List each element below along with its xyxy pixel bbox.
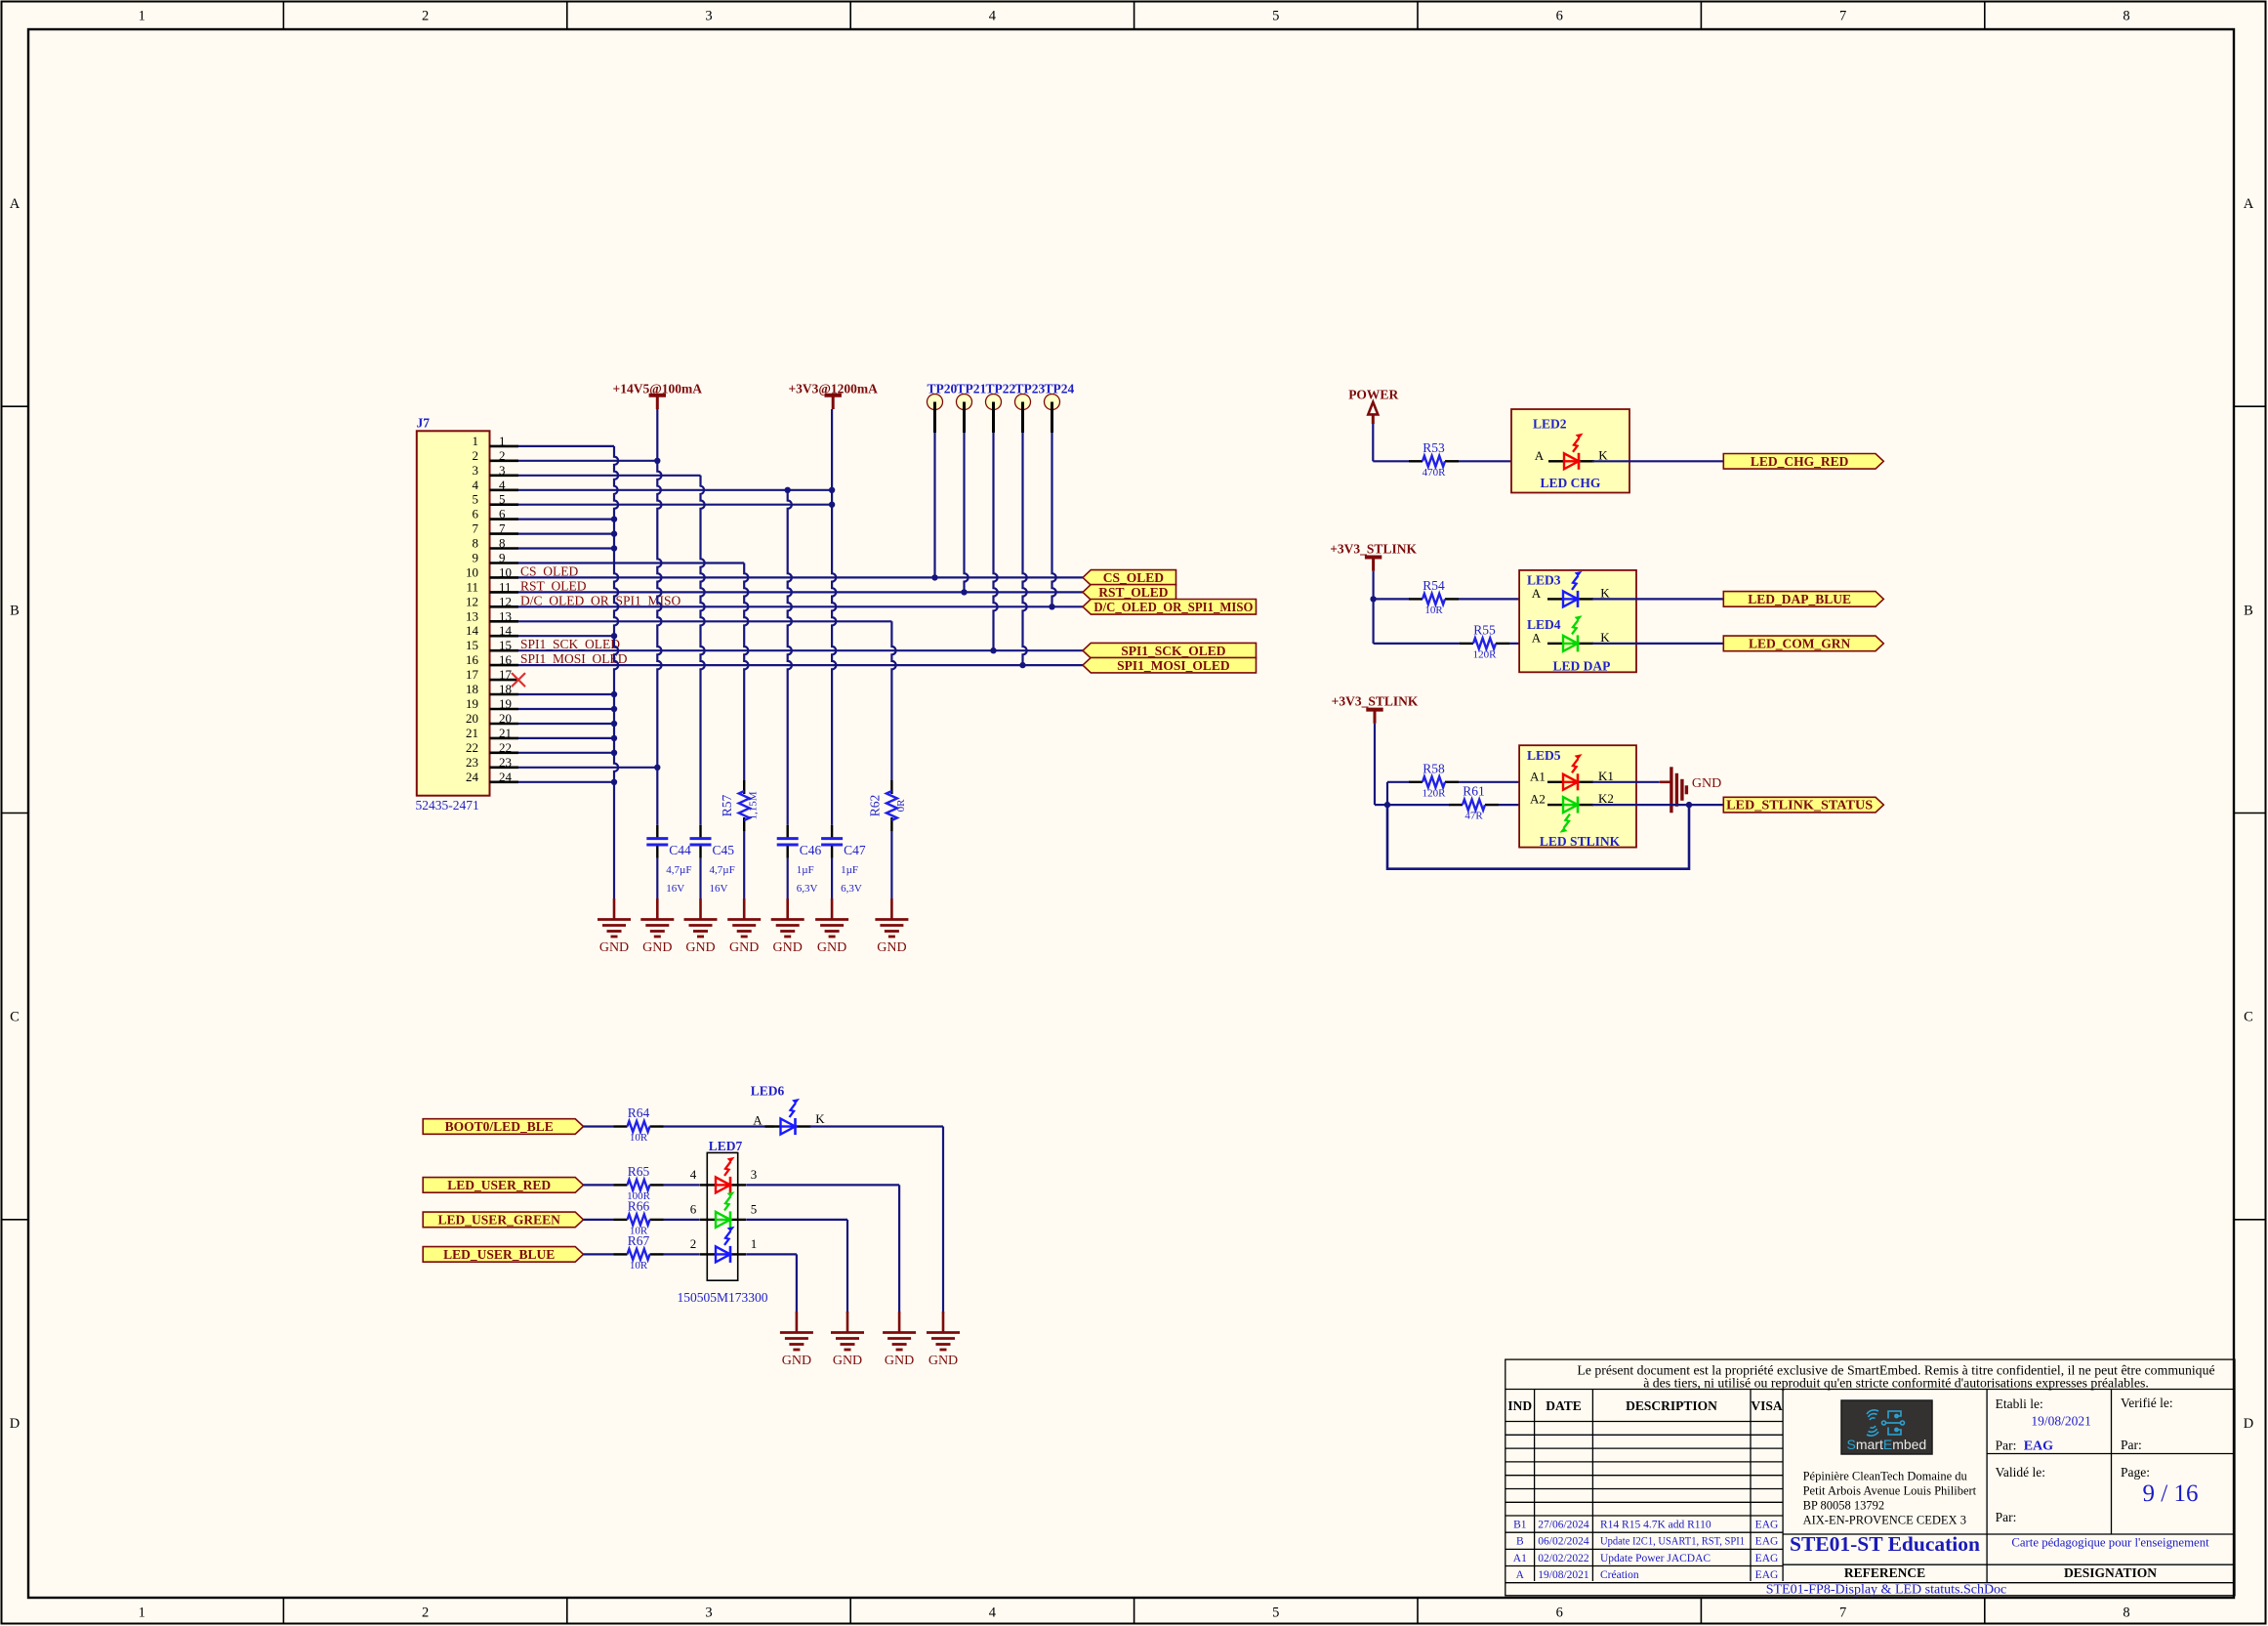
- svg-text:3: 3: [705, 1605, 712, 1621]
- wire pin7 to GND bus: [518, 532, 614, 534]
- wire BLE drop: [942, 1127, 944, 1314]
- testpoint TP21: [957, 382, 987, 434]
- wire R64 to LED6: [664, 1125, 775, 1127]
- port SPI1_SCK_OLED: [1083, 643, 1257, 658]
- svg-text:16: 16: [499, 652, 513, 667]
- svg-text:6: 6: [473, 507, 479, 521]
- port LED_STLINK_STATUS: [1723, 797, 1883, 813]
- svg-text:DATE: DATE: [1546, 1398, 1582, 1413]
- svg-text:5: 5: [1272, 9, 1279, 24]
- power port POWER: [1348, 388, 1398, 425]
- port LED_COM_GRN: [1723, 636, 1883, 651]
- svg-text:Petit Arbois Avenue Louis Phil: Petit Arbois Avenue Louis Philibert: [1803, 1484, 1977, 1498]
- port BOOT0/LED_BLE: [423, 1119, 583, 1135]
- wire R65 to LED7 pin4: [664, 1184, 700, 1186]
- svg-text:5: 5: [499, 492, 506, 507]
- svg-text:3: 3: [705, 9, 712, 24]
- svg-text:22: 22: [499, 740, 512, 755]
- svg-text:16: 16: [466, 652, 479, 667]
- wire R58 to LED5 A1: [1459, 781, 1546, 783]
- svg-text:1,15M: 1,15M: [748, 791, 760, 819]
- svg-text:D: D: [10, 1416, 20, 1432]
- svg-text:LED STLINK: LED STLINK: [1540, 834, 1621, 849]
- svg-text:C: C: [2244, 1010, 2253, 1025]
- svg-text:EAG: EAG: [1755, 1519, 1779, 1530]
- svg-text:TP21: TP21: [957, 382, 987, 396]
- wire TP24 to D/C_OLED_OR_SPI1_MISO: [1052, 433, 1056, 606]
- ground GND9 at x=868: [831, 1312, 864, 1368]
- wire LED2 K to port: [1592, 460, 1723, 462]
- pin 10 of J7: [466, 564, 518, 579]
- svg-text:7: 7: [499, 521, 506, 536]
- wire R62 column lower: [890, 830, 892, 898]
- pin 23 of J7: [466, 755, 518, 770]
- svg-text:A: A: [1532, 586, 1542, 601]
- svg-text:8: 8: [473, 536, 479, 551]
- svg-text:GND: GND: [782, 1354, 811, 1368]
- wire capacitor to ground: [699, 858, 701, 898]
- svg-text:4: 4: [989, 1605, 997, 1621]
- wire LED3 K to port: [1592, 598, 1723, 600]
- svg-text:GND: GND: [685, 940, 715, 955]
- svg-text:C47: C47: [844, 843, 866, 857]
- junction C46 column +3V3: [785, 487, 791, 493]
- svg-text:CS_OLED: CS_OLED: [520, 563, 579, 578]
- svg-text:Page:: Page:: [2121, 1465, 2150, 1480]
- no-connect marker pin 17: [512, 673, 525, 687]
- svg-text:SPI1_MOSI_OLED: SPI1_MOSI_OLED: [520, 651, 628, 666]
- pin 7 of J7: [473, 521, 519, 536]
- wire pin8 to GND bus: [518, 547, 614, 549]
- svg-text:15: 15: [499, 638, 512, 652]
- svg-text:J7: J7: [417, 416, 431, 431]
- svg-text:18: 18: [499, 682, 512, 696]
- pin 16 of J7: [466, 652, 518, 667]
- svg-text:STE01-FP8-Display & LED statut: STE01-FP8-Display & LED statuts.SchDoc: [1766, 1583, 2007, 1598]
- capacitor C44: [646, 825, 691, 895]
- led LED5 (LED STLINK): [1519, 745, 1636, 849]
- junction GND bus pin22: [611, 750, 617, 756]
- svg-text:Update Power JACDAC: Update Power JACDAC: [1600, 1553, 1711, 1564]
- svg-text:POWER: POWER: [1348, 388, 1398, 402]
- port LED_USER_GREEN: [423, 1212, 583, 1228]
- pin 18 of J7: [466, 682, 518, 696]
- svg-text:24: 24: [499, 770, 513, 784]
- testpoint TP23: [1015, 382, 1046, 434]
- ground GND (rotated): [1660, 767, 1721, 813]
- svg-text:TP20: TP20: [928, 382, 958, 396]
- wire pin5 to +3V3 rail: [518, 504, 832, 506]
- svg-text:GND: GND: [1692, 776, 1721, 791]
- svg-text:Pépinière CleanTech Domaine du: Pépinière CleanTech Domaine du: [1803, 1470, 1968, 1483]
- ground GND3 at x=718: [684, 898, 718, 955]
- svg-text:SmartEmbed: SmartEmbed: [1847, 1437, 1927, 1452]
- pin 6 of J7: [473, 507, 519, 521]
- svg-text:C45: C45: [713, 843, 735, 857]
- svg-text:A: A: [2244, 196, 2254, 212]
- capacitor C45: [690, 825, 735, 895]
- svg-text:7: 7: [1839, 1605, 1846, 1621]
- wire A2 node to R61: [1387, 804, 1450, 806]
- title block: [1505, 1359, 2235, 1596]
- svg-text:GND: GND: [885, 1354, 914, 1368]
- pin 19 of J7: [466, 696, 518, 711]
- svg-text:22: 22: [466, 740, 478, 755]
- svg-text:LED_USER_RED: LED_USER_RED: [447, 1178, 551, 1192]
- svg-text:A1: A1: [1513, 1553, 1527, 1564]
- svg-text:20: 20: [466, 711, 478, 726]
- svg-text:AIX-EN-PROVENCE CEDEX 3: AIX-EN-PROVENCE CEDEX 3: [1803, 1514, 1966, 1527]
- svg-text:19: 19: [466, 696, 478, 711]
- svg-text:19: 19: [499, 696, 512, 711]
- svg-text:K2: K2: [1598, 791, 1614, 806]
- svg-text:LED_CHG_RED: LED_CHG_RED: [1751, 454, 1849, 469]
- svg-text:SPI1_SCK_OLED: SPI1_SCK_OLED: [1121, 644, 1226, 658]
- svg-text:120R: 120R: [1473, 648, 1498, 660]
- svg-text:C: C: [10, 1010, 20, 1025]
- wire LED6 K to ground: [810, 1125, 944, 1127]
- svg-text:RST_OLED: RST_OLED: [520, 578, 587, 593]
- junction TP20 CS_OLED: [931, 574, 937, 580]
- wire pin21 to GND bus: [518, 737, 614, 739]
- svg-text:13: 13: [466, 608, 478, 623]
- svg-text:8: 8: [2123, 9, 2129, 24]
- resistor R65: [614, 1164, 664, 1202]
- svg-text:19/08/2021: 19/08/2021: [1538, 1569, 1589, 1581]
- svg-text:12: 12: [466, 594, 478, 608]
- testpoint TP20: [928, 382, 958, 434]
- svg-text:Par:: Par:: [1996, 1438, 2017, 1453]
- svg-text:6,3V: 6,3V: [797, 883, 818, 895]
- svg-text:1: 1: [499, 434, 506, 448]
- svg-text:5: 5: [473, 492, 479, 507]
- wire pin20 to GND bus: [518, 723, 614, 725]
- wire R53 to LED2: [1459, 460, 1546, 462]
- svg-text:2: 2: [422, 1605, 429, 1621]
- svg-text:LED6: LED6: [751, 1084, 785, 1099]
- svg-text:5: 5: [751, 1202, 758, 1217]
- svg-text:12: 12: [499, 594, 512, 608]
- svg-text:GND: GND: [877, 940, 906, 955]
- svg-text:8: 8: [2123, 1605, 2129, 1621]
- wire LED4 K to port: [1592, 643, 1723, 645]
- svg-text:3: 3: [473, 463, 479, 478]
- wire POWER to R53: [1373, 460, 1410, 462]
- svg-text:7: 7: [1839, 9, 1846, 24]
- wire R57 column lower: [743, 830, 745, 898]
- svg-text:GND: GND: [599, 940, 629, 955]
- svg-text:Par:: Par:: [1996, 1510, 2017, 1524]
- svg-text:1µF: 1µF: [797, 864, 814, 876]
- svg-text:STE01-ST Education: STE01-ST Education: [1790, 1532, 1980, 1556]
- capacitor C46: [777, 825, 822, 895]
- svg-text:1: 1: [139, 1605, 145, 1621]
- svg-text:B: B: [2244, 603, 2253, 618]
- wire pin18 to GND bus: [518, 693, 614, 695]
- svg-text:R58: R58: [1423, 761, 1445, 775]
- svg-text:B: B: [1516, 1536, 1524, 1548]
- led LED2 (LED CHG): [1511, 409, 1629, 493]
- power port +3V3: [788, 382, 878, 410]
- svg-text:A: A: [1516, 1569, 1525, 1581]
- ground GND5 at x=807: [771, 898, 804, 955]
- wire pin6 to GND bus: [518, 518, 614, 520]
- junction A2 node: [1384, 802, 1390, 808]
- wire TP21 to RST_OLED: [965, 433, 969, 592]
- svg-text:14: 14: [499, 623, 513, 638]
- svg-text:EAG: EAG: [1755, 1569, 1779, 1581]
- port LED_CHG_RED: [1723, 454, 1883, 470]
- svg-text:A: A: [753, 1113, 763, 1128]
- resistor R55: [1460, 622, 1509, 660]
- wire pin22 to GND bus: [518, 752, 614, 754]
- junction TP24 D/C_OLED: [1049, 604, 1054, 609]
- junction TP22 SPI1_SCK_OLED: [990, 647, 996, 653]
- svg-text:7: 7: [473, 521, 479, 536]
- svg-text:Par:: Par:: [2121, 1438, 2142, 1452]
- svg-text:Update I2C1, USART1, RST, SPI1: Update I2C1, USART1, RST, SPI1: [1600, 1536, 1745, 1548]
- svg-text:8: 8: [499, 536, 506, 551]
- wire capacitor to ground: [656, 858, 658, 898]
- wire R55 to LED4: [1509, 643, 1546, 645]
- svg-text:15: 15: [466, 638, 478, 652]
- svg-text:52435-2471: 52435-2471: [416, 798, 479, 813]
- wire to R54: [1374, 598, 1410, 600]
- resistor R67: [614, 1233, 664, 1272]
- wire capacitor to ground: [787, 858, 789, 898]
- svg-text:R67: R67: [628, 1233, 650, 1248]
- svg-text:TP23: TP23: [1015, 382, 1046, 396]
- svg-text:C46: C46: [800, 843, 822, 857]
- svg-text:LED DAP: LED DAP: [1553, 659, 1611, 674]
- svg-text:CS_OLED: CS_OLED: [1103, 570, 1165, 585]
- wire pin13 to R62 column: [518, 620, 891, 622]
- svg-text:SPI1_MOSI_OLED: SPI1_MOSI_OLED: [1117, 658, 1230, 673]
- resistor R62: [867, 780, 907, 831]
- svg-text:4: 4: [690, 1167, 697, 1182]
- svg-text:1µF: 1µF: [841, 864, 858, 876]
- wire blue drop: [796, 1254, 798, 1313]
- svg-text:R66: R66: [628, 1198, 650, 1213]
- svg-text:à des tiers, ni utilisé ou rep: à des tiers, ni utilisé ou reproduit qu'…: [1643, 1376, 2149, 1391]
- resistor R54: [1409, 578, 1459, 616]
- svg-text:EAG: EAG: [1755, 1536, 1779, 1548]
- svg-text:LED2: LED2: [1533, 417, 1567, 432]
- pin 1 of J7: [473, 434, 519, 448]
- junction TP21 RST_OLED: [961, 589, 967, 595]
- svg-text:10: 10: [499, 564, 512, 579]
- junction GND bus pin20: [611, 721, 617, 727]
- wire green drop: [846, 1220, 848, 1313]
- svg-text:C44: C44: [669, 843, 691, 857]
- svg-text:RST_OLED: RST_OLED: [1098, 585, 1169, 600]
- wire LED7 pin3 to ground: [746, 1184, 899, 1186]
- connector J7: [417, 431, 490, 795]
- svg-text:21: 21: [466, 726, 478, 740]
- svg-text:SPI1_SCK_OLED: SPI1_SCK_OLED: [520, 637, 620, 651]
- svg-text:GND: GND: [928, 1354, 958, 1368]
- pin 2 of J7: [473, 448, 519, 463]
- port SPI1_MOSI_OLED: [1083, 657, 1257, 673]
- svg-text:R62: R62: [867, 795, 882, 817]
- ground GND2 at x=673: [640, 898, 674, 955]
- resistor R53: [1409, 440, 1459, 479]
- wire TP20 to CS_OLED: [933, 433, 935, 577]
- svg-text:4: 4: [473, 478, 479, 492]
- pin 17 of J7: [466, 667, 518, 682]
- svg-text:13: 13: [499, 608, 512, 623]
- svg-text:LED_COM_GRN: LED_COM_GRN: [1749, 637, 1851, 651]
- svg-text:21: 21: [499, 726, 512, 740]
- svg-text:R61: R61: [1463, 784, 1485, 799]
- svg-text:LED7: LED7: [709, 1139, 743, 1153]
- svg-text:B: B: [10, 603, 20, 618]
- resistor R58: [1409, 761, 1459, 799]
- wire GND bus vertical: [614, 446, 618, 898]
- power port +3V3_STLINK upper: [1330, 542, 1417, 571]
- svg-text:14: 14: [466, 623, 479, 638]
- svg-text:TP24: TP24: [1045, 382, 1075, 396]
- wire R62 column upper: [891, 621, 895, 781]
- ground GND4 at x=762: [727, 898, 761, 955]
- svg-text:EAG: EAG: [2024, 1439, 2053, 1454]
- junction GND bus pin6: [611, 516, 617, 521]
- wire LED_USER_GREEN to R66: [584, 1219, 614, 1221]
- wire net SPI1_MOSI_OLED: [518, 664, 1083, 666]
- svg-text:2: 2: [473, 448, 479, 463]
- svg-text:6: 6: [1556, 1605, 1563, 1621]
- wire capacitor to ground: [831, 858, 833, 898]
- svg-text:D: D: [2244, 1416, 2253, 1432]
- svg-text:4,7µF: 4,7µF: [710, 864, 735, 876]
- pin 13 of J7: [466, 608, 518, 623]
- svg-text:47R: 47R: [1464, 811, 1483, 822]
- svg-text:5: 5: [1272, 1605, 1279, 1621]
- svg-text:A2: A2: [1530, 792, 1546, 807]
- svg-text:K: K: [815, 1111, 825, 1126]
- svg-text:A: A: [10, 196, 21, 212]
- led LED7 (RGB 150505M173300): [677, 1139, 767, 1305]
- svg-text:120R: 120R: [1423, 787, 1447, 799]
- wire branch to R55 row: [1372, 599, 1374, 644]
- wire pin1 to GND bus: [518, 445, 614, 447]
- junction +14V5 pin2: [654, 458, 660, 464]
- wire +3V3 rail vertical: [832, 409, 836, 825]
- wire pin23 to +14V5 rail: [518, 767, 657, 769]
- junction GND bus pin8: [611, 545, 617, 551]
- svg-text:18: 18: [466, 682, 478, 696]
- junction K2 loop: [1686, 802, 1692, 808]
- pin 5 of J7: [473, 492, 519, 507]
- wire pin4 to +3V3 rail: [518, 489, 832, 491]
- svg-text:27/06/2024: 27/06/2024: [1538, 1519, 1589, 1530]
- pin 14 of J7: [466, 623, 518, 638]
- resistor R64: [614, 1105, 664, 1144]
- svg-text:GND: GND: [773, 940, 803, 955]
- svg-text:1: 1: [751, 1236, 758, 1251]
- svg-text:GND: GND: [833, 1354, 862, 1368]
- svg-text:24: 24: [466, 770, 479, 784]
- pin 15 of J7: [466, 638, 518, 652]
- wire net RST_OLED: [518, 591, 1083, 593]
- svg-text:+3V3_STLINK: +3V3_STLINK: [1330, 542, 1417, 557]
- pin 24 of J7: [466, 770, 518, 784]
- svg-text:DESIGNATION: DESIGNATION: [2064, 1565, 2157, 1580]
- wire R57 column upper: [744, 563, 748, 782]
- wire LED5 K1 to ground: [1592, 781, 1660, 783]
- wire R66 to LED7 pin6: [664, 1219, 700, 1221]
- wire BOOT0 to R64: [584, 1125, 614, 1127]
- capacitor C47: [821, 825, 866, 895]
- wire pin9 to R57 column: [518, 562, 744, 563]
- junction GND bus pin24: [611, 779, 617, 785]
- wire +3V3_STLINK drop: [1372, 571, 1374, 600]
- svg-text:LED CHG: LED CHG: [1541, 476, 1601, 490]
- led LED6: [751, 1084, 826, 1136]
- svg-text:23: 23: [466, 755, 478, 770]
- svg-text:Carte pédagogique pour l'ensei: Carte pédagogique pour l'enseignement: [2011, 1536, 2209, 1550]
- wire to R58: [1387, 781, 1410, 783]
- svg-text:9 / 16: 9 / 16: [2143, 1480, 2199, 1507]
- resistor R57: [720, 780, 760, 831]
- svg-text:BP 80058 13792: BP 80058 13792: [1803, 1499, 1885, 1513]
- wire to R55: [1374, 643, 1461, 645]
- svg-text:A: A: [1532, 631, 1542, 646]
- wire A2 node up to R58 row: [1386, 782, 1388, 805]
- port RST_OLED: [1083, 585, 1176, 601]
- svg-text:D/C_OLED_OR_SPI1_MISO: D/C_OLED_OR_SPI1_MISO: [1093, 600, 1253, 614]
- svg-text:3: 3: [499, 463, 506, 478]
- junction +3V3 pin5: [829, 502, 835, 508]
- wire corner to A2 node: [1375, 804, 1387, 806]
- svg-text:2: 2: [690, 1236, 697, 1251]
- svg-text:R65: R65: [628, 1164, 650, 1179]
- pin 21 of J7: [466, 726, 518, 740]
- wire pin3 to C45 column: [518, 475, 701, 477]
- wire TP23 to SPI1_MOSI_OLED: [1023, 433, 1027, 665]
- pin 8 of J7: [473, 536, 519, 551]
- svg-text:11: 11: [466, 579, 478, 594]
- svg-text:6: 6: [499, 507, 506, 521]
- svg-text:R54: R54: [1423, 578, 1445, 593]
- svg-text:EAG: EAG: [1755, 1553, 1779, 1564]
- wire POWER drop: [1372, 424, 1374, 461]
- port CS_OLED: [1083, 570, 1176, 586]
- svg-text:GND: GND: [817, 940, 846, 955]
- wire LED5 K2 to port: [1592, 804, 1723, 806]
- pin 20 of J7: [466, 711, 518, 726]
- svg-text:TP22: TP22: [986, 382, 1016, 396]
- pin 9 of J7: [473, 551, 519, 565]
- svg-text:4: 4: [989, 9, 997, 24]
- junction +3V3_STLINK branch: [1370, 596, 1376, 602]
- led LED3 / LED4 (LED DAP): [1519, 570, 1636, 674]
- junction +3V3 pin4: [829, 487, 835, 493]
- svg-text:LED_USER_BLUE: LED_USER_BLUE: [443, 1247, 555, 1262]
- pin 12 of J7: [466, 594, 518, 608]
- wire red drop: [898, 1185, 900, 1313]
- resistor R66: [614, 1198, 664, 1236]
- wire loop A2 to K2: [1387, 805, 1689, 869]
- svg-text:11: 11: [499, 579, 512, 594]
- svg-text:Création: Création: [1600, 1569, 1639, 1581]
- pin 22 of J7: [466, 740, 518, 755]
- svg-text:02/02/2022: 02/02/2022: [1538, 1553, 1589, 1564]
- svg-text:06/02/2024: 06/02/2024: [1538, 1536, 1589, 1548]
- svg-text:BOOT0/LED_BLE: BOOT0/LED_BLE: [445, 1119, 554, 1134]
- svg-text:20: 20: [499, 711, 512, 726]
- ground GND8 at x=816: [780, 1312, 813, 1368]
